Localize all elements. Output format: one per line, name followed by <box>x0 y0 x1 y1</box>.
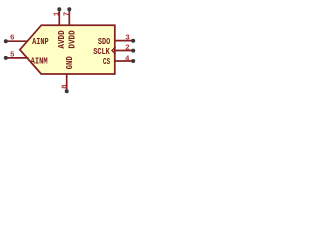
pin 6 AINP wire <box>4 39 28 43</box>
svg-text:7: 7 <box>64 12 72 17</box>
pin 5 AINM wire <box>4 56 29 60</box>
pin 8 GND wire <box>65 74 69 93</box>
svg-text:2: 2 <box>125 45 130 53</box>
svg-text:1: 1 <box>54 11 62 16</box>
svg-text:5: 5 <box>10 51 15 59</box>
svg-text:4: 4 <box>125 55 130 63</box>
svg-text:AINP: AINP <box>32 36 49 47</box>
IC body U1 (ADC symbol outline) <box>20 25 115 74</box>
svg-text:3: 3 <box>125 35 130 43</box>
svg-text:GND: GND <box>64 56 75 69</box>
svg-text:8: 8 <box>61 84 69 89</box>
svg-text:CS: CS <box>103 56 110 67</box>
pin 2 SCLK wire with clock symbol <box>112 47 135 54</box>
svg-text:AINM: AINM <box>31 56 48 67</box>
pin 1 AVDD wire <box>57 7 61 25</box>
svg-text:6: 6 <box>10 35 15 43</box>
pin 4 CS wire <box>115 59 135 63</box>
svg-text:AVDD: AVDD <box>56 30 67 49</box>
svg-text:DVDD: DVDD <box>67 30 78 49</box>
pin 3 SDO wire <box>115 39 135 43</box>
pin 7 DVDD wire <box>67 7 71 25</box>
